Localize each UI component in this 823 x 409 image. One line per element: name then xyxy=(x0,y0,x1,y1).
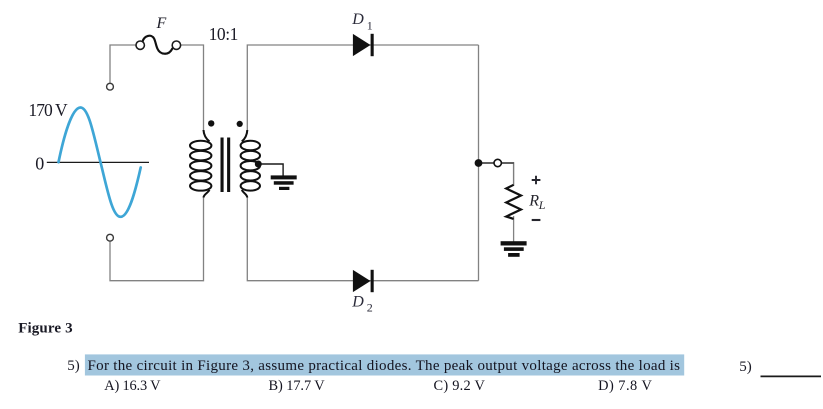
svg-text:Figure 3: Figure 3 xyxy=(18,321,72,337)
svg-text:D) 7.8 V: D) 7.8 V xyxy=(598,378,652,394)
label D1 xyxy=(351,11,373,32)
svg-text:5): 5) xyxy=(67,358,80,374)
wire: secondary top lead up and right to D1 and right corner xyxy=(247,45,478,131)
highlight band xyxy=(85,354,684,375)
wire: center tap to ground xyxy=(260,164,283,176)
svg-text:D: D xyxy=(351,293,364,310)
svg-text:1: 1 xyxy=(367,18,373,32)
transformer phase dot (secondary) xyxy=(237,121,243,127)
question text (highlighted) xyxy=(88,358,681,374)
transformer phase dot (primary) xyxy=(208,120,214,126)
label D2 xyxy=(351,293,373,314)
diode D1 xyxy=(353,34,374,56)
svg-text:2: 2 xyxy=(367,301,373,315)
svg-text:R: R xyxy=(528,193,539,210)
label − (load polarity) xyxy=(532,219,541,221)
label RL xyxy=(528,193,545,213)
svg-text:0: 0 xyxy=(35,154,44,174)
node junction dot (output node) xyxy=(475,159,483,167)
label 10:1 xyxy=(209,24,239,44)
transformer secondary winding xyxy=(241,130,260,198)
label 170 V xyxy=(28,100,68,120)
svg-text:D: D xyxy=(351,11,364,28)
answer blank line xyxy=(761,375,822,377)
label + (load polarity) xyxy=(532,176,541,185)
wire: right vertical rail xyxy=(478,45,480,281)
svg-text:170 V: 170 V xyxy=(28,100,68,120)
wire: primary bottom lead down and left to source bottom terminal xyxy=(110,196,204,281)
source terminal (bottom, open circle) xyxy=(107,234,114,241)
question number 5) xyxy=(67,358,80,374)
transformer core xyxy=(221,138,231,193)
svg-text:A) 16.3 V: A) 16.3 V xyxy=(104,378,161,394)
answer-sheet number 5) xyxy=(739,359,752,375)
svg-text:L: L xyxy=(538,198,546,212)
wire: source top terminal up and right to fuse xyxy=(110,45,136,83)
ground (center tap) xyxy=(271,175,297,190)
center tap junction dot xyxy=(255,161,262,168)
source terminal (top, open circle) xyxy=(107,83,114,90)
wire: fuse to primary top lead xyxy=(180,45,203,131)
svg-text:B) 17.7 V: B) 17.7 V xyxy=(269,378,326,394)
sine waveform of 170 V source xyxy=(47,108,149,217)
answer C xyxy=(434,378,486,394)
answer D xyxy=(598,378,652,394)
transformer primary winding xyxy=(190,130,211,198)
svg-text:10:1: 10:1 xyxy=(209,24,239,44)
caption: Figure 3 xyxy=(18,321,72,337)
answer A xyxy=(104,378,161,394)
answer B xyxy=(269,378,326,394)
resistor RL xyxy=(506,185,521,219)
fuse F xyxy=(136,36,181,54)
svg-text:C) 9.2 V: C) 9.2 V xyxy=(434,378,486,394)
ground (load) xyxy=(501,241,527,257)
label 0 (axis) xyxy=(35,154,44,174)
wire: secondary bottom lead down and right to D2 and right rail xyxy=(247,196,478,281)
svg-text:For the circuit in Figure 3, a: For the circuit in Figure 3, assume prac… xyxy=(88,358,681,374)
diode D2 xyxy=(353,270,374,292)
wire: load resistor bottom to ground xyxy=(513,216,515,242)
label F xyxy=(156,15,167,32)
output terminal (open circle) xyxy=(494,159,501,166)
wire: node to output terminal and to load resistor top xyxy=(479,163,515,186)
svg-text:5): 5) xyxy=(739,359,752,375)
svg-text:F: F xyxy=(156,15,167,32)
